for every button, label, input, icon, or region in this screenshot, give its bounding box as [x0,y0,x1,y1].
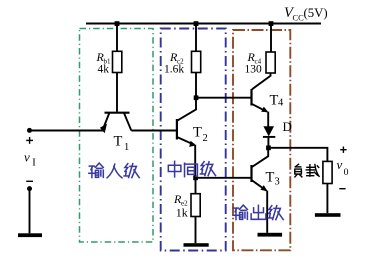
svg-text:0: 0 [344,167,349,178]
svg-text:1: 1 [124,142,129,153]
svg-text:T: T [266,170,275,186]
svg-text:4: 4 [278,98,284,109]
svg-text:v: v [337,157,343,172]
svg-text:D: D [283,119,292,134]
svg-text:1k: 1k [176,205,188,219]
svg-text:2: 2 [203,133,208,144]
svg-text:130: 130 [245,64,263,76]
svg-text:3: 3 [275,177,280,188]
svg-text:(5V): (5V) [304,6,328,20]
svg-text:T: T [193,125,202,141]
svg-text:4k: 4k [98,63,110,75]
svg-text:v: v [24,150,30,165]
svg-text:I: I [32,158,36,169]
svg-text:CC: CC [293,12,305,22]
svg-text:1.6k: 1.6k [164,63,184,75]
svg-text:T: T [114,134,123,150]
